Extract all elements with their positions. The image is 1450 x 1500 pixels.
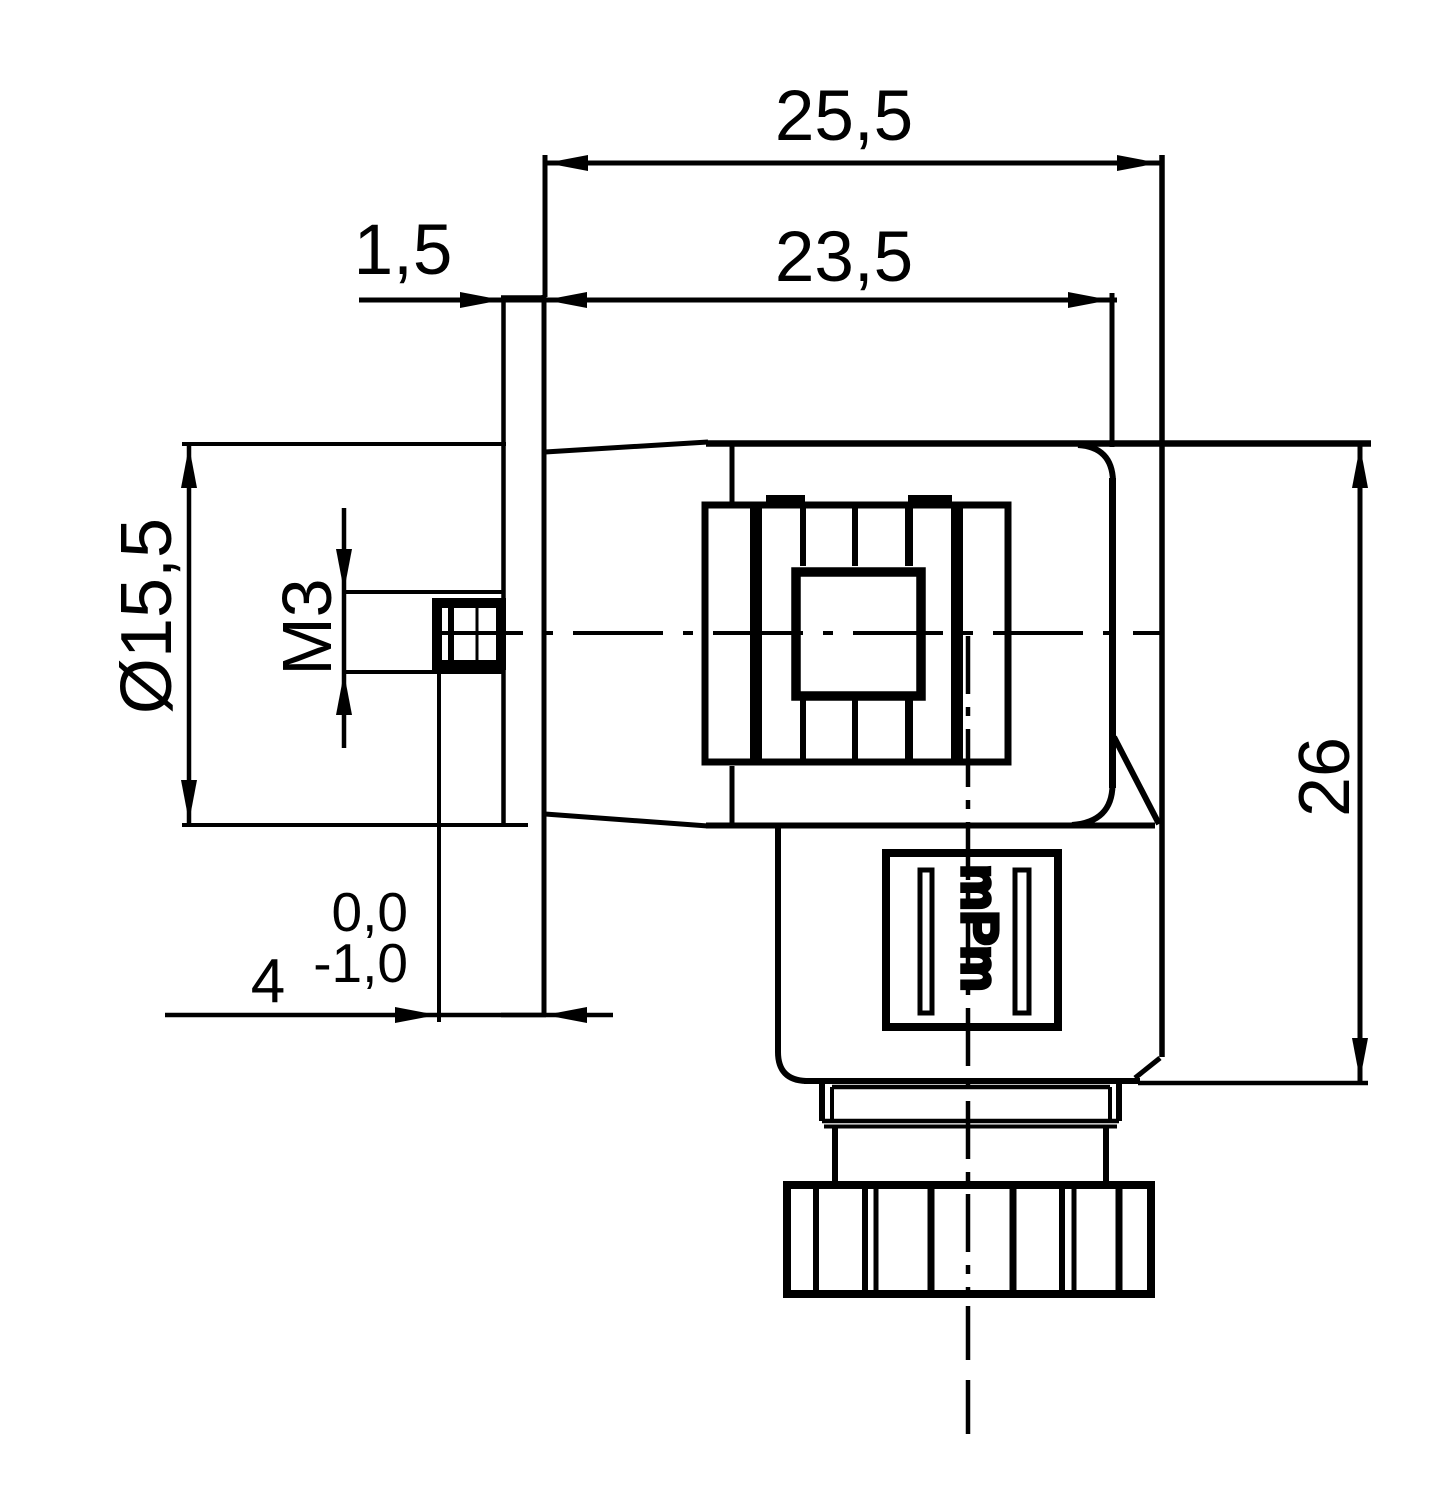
knurl line 6 (1059, 1185, 1065, 1294)
dimension line D15,5 (181, 445, 197, 823)
knurled nut body (787, 1185, 1151, 1294)
body bottom edge (706, 823, 1155, 829)
knurl line 2 (862, 1185, 868, 1294)
svg-text:1,5: 1,5 (354, 211, 453, 290)
terminal block top bump 2 (908, 495, 952, 506)
svg-text:M3: M3 (268, 578, 346, 675)
knurl line 1 (813, 1185, 819, 1294)
extension line right of 23,5 (1110, 293, 1115, 447)
body top edge (with 26 extension) (706, 440, 1371, 447)
neck lower left edge (832, 1126, 838, 1181)
extension line bottom of 26 (1138, 1081, 1368, 1086)
body bottom right corner (1072, 785, 1113, 825)
neck ring outer left (819, 1084, 825, 1121)
dimension line 25,5 (545, 155, 1160, 171)
screw M3 head (437, 600, 501, 668)
vertical centerline (966, 636, 971, 1298)
neck ring top line (832, 1085, 1110, 1090)
knurl line 5 (1010, 1185, 1017, 1294)
housing bottom edge (804, 1078, 1140, 1084)
extension line from screw for 4 dim (437, 668, 441, 1022)
dimension line 23,5 and 1,5 (359, 292, 1117, 308)
terminal slat line b (852, 505, 858, 762)
neck lower right edge (1103, 1126, 1109, 1181)
knurl line 4 (928, 1185, 935, 1294)
extension lines M3 (344, 592, 502, 672)
dimension text D15,5 rotated (107, 518, 187, 714)
body cable chamfer diagonal (1114, 737, 1159, 824)
svg-text:-1,0: -1,0 (313, 932, 408, 994)
body bottom taper line (545, 814, 708, 826)
svg-text:mPm: mPm (950, 864, 1008, 991)
mPm logo text (950, 864, 1008, 991)
housing bottom right chamfer (1135, 1058, 1160, 1078)
terminal slat line a (800, 505, 806, 762)
neck ring inner left (830, 1087, 834, 1121)
body top taper line (545, 442, 708, 452)
flange plate (501, 295, 546, 1015)
housing left edge (778, 828, 806, 1081)
dimension line M3 (336, 508, 352, 748)
knurl line 7 (1072, 1185, 1077, 1294)
mPm slot right (1015, 870, 1029, 1013)
svg-text:25,5: 25,5 (775, 77, 913, 156)
terminal center square (796, 572, 921, 696)
terminal block thick bar right (951, 505, 963, 762)
svg-text:26: 26 (1285, 737, 1365, 817)
extension line bottom of D15,5 (182, 823, 528, 827)
knurl line 8 (1116, 1185, 1123, 1294)
neck ring outer right (1116, 1084, 1122, 1121)
terminal block frame (705, 505, 1008, 762)
mPm slot left (920, 870, 932, 1013)
dimension line 4 (165, 1007, 613, 1023)
svg-text:Ø15,5: Ø15,5 (107, 518, 187, 714)
body section line (730, 444, 735, 825)
body right edge (1109, 478, 1116, 788)
extension line top of D15,5 (182, 442, 506, 446)
knurl line 3 (874, 1185, 879, 1294)
dimension text M3 rotated (268, 578, 346, 675)
dimension text 26 rotated (1285, 737, 1365, 817)
terminal block thick bar left (750, 505, 762, 762)
svg-text:23,5: 23,5 (775, 218, 913, 297)
terminal slat line c (905, 505, 913, 762)
mPm label box (886, 853, 1058, 1027)
extension line left of 25,5 (543, 155, 548, 297)
extension line right of 25,5 (continues as housing right edge) (1159, 155, 1165, 1057)
neck ring inner right (1108, 1087, 1112, 1121)
horizontal centerline (433, 631, 1160, 635)
neck ring bottom lines (822, 1121, 1119, 1127)
svg-text:4: 4 (251, 947, 285, 1016)
body top right corner (1078, 445, 1113, 481)
dimension line 26 (1352, 445, 1368, 1081)
terminal block top bump 1 (766, 495, 805, 506)
